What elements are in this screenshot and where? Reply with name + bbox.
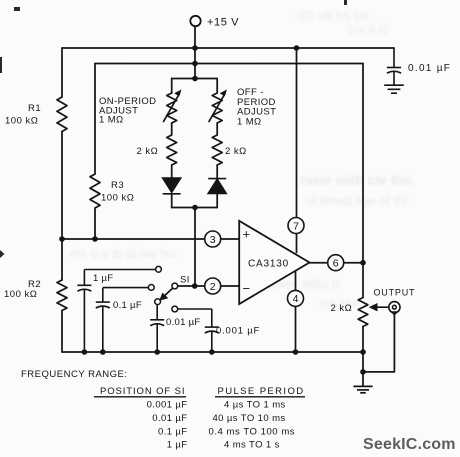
svg-text:SeekIC.com: SeekIC.com: [363, 436, 456, 453]
junction: pin4 / ground rail: [293, 349, 299, 355]
svg-text:6: 6: [333, 258, 339, 270]
switch contact 0.01uF: [155, 299, 161, 305]
junction: C0.1uF / ground rail: [100, 349, 106, 355]
capacitor C 0.01uF: [150, 305, 164, 353]
svg-text:3: 3: [210, 234, 216, 246]
svg-text:1 µF: 1 µF: [93, 273, 113, 284]
output potentiometer 2k: [358, 298, 368, 327]
junction: ground rail / output rail: [360, 349, 366, 355]
wire: output terminal drop: [363, 313, 394, 372]
wire: right pot branch vertical: [216, 79, 218, 208]
wire: diode junction down to pin2 node: [194, 208, 196, 287]
svg-text:40 µs TO 10 ms: 40 µs TO 10 ms: [213, 413, 286, 424]
pin circle 6: [328, 255, 344, 271]
svg-text:0.01 µF: 0.01 µF: [152, 413, 187, 424]
svg-text:1 µF: 1 µF: [167, 440, 188, 451]
junction: output return / ground node: [360, 369, 366, 375]
pin circle 7: [288, 218, 304, 234]
switch contact 0.001uF: [172, 306, 178, 312]
svg-text:SI: SI: [180, 275, 190, 286]
pin circle 4: [288, 290, 304, 306]
svg-text:1 MΩ: 1 MΩ: [99, 115, 124, 126]
wire: pin 7 drop: [296, 48, 298, 253]
resistor R3 100k: [90, 174, 100, 208]
wire: right rail down to output pot: [362, 64, 364, 298]
junction: pin3 wire / R3 rail: [92, 236, 98, 242]
capacitor 0.01uF top right: [387, 48, 401, 85]
svg-text:2 kΩ: 2 kΩ: [331, 303, 353, 314]
pot arrow left: [164, 94, 180, 122]
capacitor C 0.1uF: [96, 288, 149, 352]
svg-text:4 µs TO 1 ms: 4 µs TO 1 ms: [224, 400, 286, 411]
svg-text:100 kΩ: 100 kΩ: [5, 116, 38, 127]
potentiometer OFF-PERIOD 1M: [212, 93, 222, 123]
switch contact 0.1uF: [148, 285, 154, 291]
capacitor C 1uF: [77, 270, 155, 353]
terminal +15V: [190, 16, 200, 26]
junction: pin3 wire / left rail: [59, 236, 65, 242]
wire: bottom ground rail: [62, 351, 363, 353]
wire: left outer rail: [61, 48, 63, 352]
svg-text:POSITION OF SI: POSITION OF SI: [100, 386, 185, 397]
svg-text:+: +: [243, 227, 251, 242]
svg-text:2: 2: [210, 281, 216, 293]
wire: +15V stem: [194, 26, 196, 78]
svg-text:0.01 µF: 0.01 µF: [408, 63, 451, 74]
potentiometer ON-PERIOD 1M: [167, 93, 177, 123]
junction: diode branch bottom: [192, 205, 198, 211]
switch S1 arrowhead: [159, 293, 168, 301]
faint page bleed-through artifacts: [296, 8, 368, 23]
svg-text:−: −: [243, 281, 251, 296]
wire: left pot branch vertical: [171, 79, 173, 208]
scan edge artifacts: [0, 0, 347, 258]
wire: pot branch top bar: [172, 78, 218, 80]
wire: output pot bottom to rail and ground: [362, 327, 364, 387]
svg-text:OUTPUT: OUTPUT: [374, 288, 416, 298]
diode D2: [208, 179, 226, 194]
svg-text:0.1 µF: 0.1 µF: [113, 300, 142, 311]
op-amp U1 CA3130: [239, 221, 309, 304]
svg-text:0.001 µF: 0.001 µF: [147, 400, 188, 411]
svg-text:0.4 ms TO 100 ms: 0.4 ms TO 100 ms: [209, 427, 296, 438]
junction: C0.001uF / ground rail: [209, 349, 215, 355]
arrowhead pot right: [220, 90, 227, 97]
svg-text:R1: R1: [28, 103, 41, 114]
svg-text:4: 4: [293, 293, 299, 305]
svg-text:100 kΩ: 100 kΩ: [4, 289, 37, 300]
wire: pin 3 line: [62, 238, 239, 240]
diode D1: [163, 178, 181, 194]
junction: pin6 / right rail: [360, 260, 366, 266]
switch S1 arm: [164, 288, 173, 296]
wire: pin 2 line: [178, 285, 240, 287]
svg-text:0.1 µF: 0.1 µF: [158, 427, 188, 438]
junction: pin2 node: [192, 283, 198, 289]
resistor R2 100k: [57, 280, 67, 311]
capacitor C 0.001uF: [178, 309, 219, 352]
junction: C0.01uF / ground rail: [154, 349, 160, 355]
junction: C1uF / ground rail: [82, 349, 88, 355]
svg-text:2 kΩ: 2 kΩ: [225, 146, 247, 157]
svg-text:0.001 µF: 0.001 µF: [216, 326, 260, 337]
pot arrow right: [209, 94, 225, 122]
resistor 2k right: [212, 135, 222, 165]
svg-text:100 kΩ: 100 kΩ: [101, 193, 134, 204]
svg-text:2 kΩ: 2 kΩ: [137, 146, 159, 157]
table underlines: [94, 396, 305, 398]
svg-text:PULSE PERIOD: PULSE PERIOD: [218, 386, 305, 397]
svg-text:1 MΩ: 1 MΩ: [237, 116, 262, 127]
output wiper arrow: [374, 306, 390, 308]
svg-text:0.01 µF: 0.01 µF: [166, 317, 201, 328]
junction: stem / inner rail: [192, 61, 198, 67]
switch contact 1uF: [156, 266, 162, 272]
wire: pin 6 out: [310, 262, 364, 264]
wire: pin 4 drop: [295, 272, 297, 353]
svg-text:R3: R3: [111, 180, 124, 191]
pin circle 2: [205, 278, 221, 294]
resistor R1 100k: [57, 97, 67, 132]
svg-text:7: 7: [293, 220, 299, 232]
svg-text:FREQUENCY RANGE:: FREQUENCY RANGE:: [21, 369, 128, 380]
pot arrowheads: [174, 90, 227, 97]
svg-text:CA3130: CA3130: [248, 259, 289, 270]
junction: +15V stem / top rail: [192, 45, 198, 51]
wire: pot branch bottom bar: [172, 207, 218, 209]
ground (top right cap): [384, 85, 404, 93]
wire: inner left rail (to R3): [94, 64, 96, 240]
terminal OUTPUT: [389, 302, 400, 313]
ground (output): [353, 386, 372, 392]
svg-text:+15 V: +15 V: [207, 17, 239, 29]
svg-text:4 ms TO 1 s: 4 ms TO 1 s: [224, 440, 280, 451]
pin circle 3: [205, 231, 221, 247]
junction: pot branch top: [192, 76, 198, 82]
wire: top supply rail: [62, 47, 394, 49]
switch pivot: [172, 283, 178, 289]
frequency table: [21, 369, 305, 451]
resistor 2k left: [167, 135, 177, 165]
arrowhead pot left: [174, 90, 181, 97]
wire: inner top rail: [95, 63, 363, 65]
junction: pin7 branch / top rail: [294, 45, 300, 51]
